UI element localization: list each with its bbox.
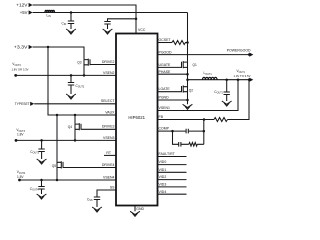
- svg-text:DRIVE3: DRIVE3: [102, 125, 115, 129]
- junction COMP node: [171, 130, 174, 133]
- svg-text:DRIVE2: DRIVE2: [102, 60, 115, 64]
- wire COUT2 branch: [70, 75, 72, 82]
- svg-text:DRIVE4: DRIVE4: [102, 163, 115, 167]
- wire PHASE: [158, 73, 188, 75]
- transistor Q5: [57, 161, 116, 168]
- svg-text:VOUT2: VOUT2: [12, 62, 21, 67]
- wire PGND: [158, 99, 188, 101]
- wire LGATE: [158, 91, 183, 93]
- junction PHASE: [186, 73, 189, 76]
- junction VCC bypass tap: [135, 18, 138, 21]
- svg-text:VID0: VID0: [159, 160, 167, 164]
- svg-text:VSEN4: VSEN4: [103, 175, 115, 179]
- output VOUT2: [12, 62, 29, 77]
- wire +5V rail: [33, 12, 188, 14]
- ground COUT2: [66, 94, 76, 99]
- wire COUT3 branch: [41, 140, 43, 148]
- wire POWERGOOD: [158, 54, 250, 56]
- ground CSS: [92, 207, 102, 212]
- junction Q3 source on VSEN2: [83, 74, 86, 77]
- svg-text:VSEN3: VSEN3: [103, 136, 115, 140]
- svg-text:TYPESET: TYPESET: [15, 102, 31, 106]
- svg-text:VID1: VID1: [159, 168, 167, 172]
- svg-text:CSS: CSS: [87, 197, 93, 202]
- svg-text:VID3: VID3: [159, 183, 167, 187]
- svg-text:1.8V: 1.8V: [17, 132, 24, 136]
- junction inductor tap: [186, 78, 189, 81]
- svg-text:LOUT1: LOUT1: [204, 71, 213, 76]
- resistor RFB: [214, 118, 227, 122]
- junction Q5 source on VSEN4: [56, 179, 59, 182]
- svg-text:VAUX: VAUX: [105, 110, 115, 114]
- wire COUT4 branch: [41, 180, 43, 186]
- wire VOUT2 / VSEN2: [16, 74, 116, 76]
- svg-text:COUT3: COUT3: [30, 150, 39, 155]
- svg-text:Q1: Q1: [193, 63, 197, 67]
- transistor Q3: [84, 59, 116, 66]
- ground PGND: [183, 100, 193, 109]
- wire upper drain column: [187, 13, 189, 62]
- junction Q5 supply tap: [56, 114, 59, 117]
- pin VID2 stub: [158, 179, 187, 181]
- svg-text:VID2: VID2: [159, 175, 167, 179]
- wire Q3 source: [83, 65, 85, 76]
- wire Q4 drain: [74, 115, 76, 124]
- wire CIN branch: [70, 13, 72, 21]
- wire SS: [97, 190, 116, 197]
- wire VOUT1 rail: [188, 79, 250, 81]
- wire SELECT: [34, 103, 116, 105]
- wire OCSET: [158, 42, 173, 44]
- svg-text:VID4: VID4: [159, 190, 167, 194]
- input +12V: [16, 3, 32, 8]
- output VOUT4: [17, 170, 26, 181]
- junction VSEN1 output tap: [237, 78, 240, 81]
- ground CIN: [66, 29, 76, 34]
- wire FB: [158, 119, 215, 121]
- ground COUT3: [37, 159, 47, 164]
- inductor LIN: [45, 10, 55, 12]
- svg-text:VSEN1: VSEN1: [159, 106, 171, 110]
- capacitor COUT3: [38, 149, 44, 159]
- wire COMP: [158, 130, 173, 132]
- svg-text:SELECT: SELECT: [101, 99, 115, 103]
- svg-text:COUT4: COUT4: [30, 187, 39, 192]
- svg-text:POWERGOOD: POWERGOOD: [227, 48, 251, 53]
- wire Q5 drain: [56, 115, 58, 162]
- pin VID1 stub: [158, 171, 187, 173]
- junction comp mid node: [203, 130, 206, 133]
- svg-text:1.5V: 1.5V: [17, 175, 24, 179]
- svg-text:OCSET: OCSET: [159, 38, 172, 42]
- junction Q4 supply tap: [74, 114, 77, 117]
- capacitor COUT2: [68, 83, 74, 95]
- svg-text:COUT2: COUT2: [76, 84, 85, 89]
- pin RT stub: [104, 154, 116, 156]
- junction COUT1 tap: [225, 78, 228, 81]
- capacitor C1: [186, 129, 188, 134]
- svg-text:HIP6021: HIP6021: [128, 115, 145, 120]
- pin FAULT/RT stub: [158, 156, 187, 158]
- wire UGATE: [158, 66, 183, 68]
- wire FB to output: [228, 80, 250, 120]
- ground COUT4: [37, 194, 47, 199]
- wire Q5 source: [56, 168, 58, 181]
- junction FB comp tap: [203, 118, 206, 121]
- wire comp right vertical: [203, 120, 205, 145]
- transistor Q4: [75, 123, 116, 130]
- svg-text:+3.3V: +3.3V: [14, 45, 28, 50]
- output VOUT3: [15, 128, 26, 142]
- wire VSEN1: [158, 80, 239, 111]
- svg-text:VSEN2: VSEN2: [103, 71, 115, 75]
- wire GND pin: [134, 206, 136, 212]
- svg-text:+12V: +12V: [16, 3, 27, 8]
- capacitor C2: [179, 142, 181, 147]
- svg-text:VCC: VCC: [138, 28, 146, 32]
- input +5V: [20, 10, 33, 15]
- wire +3.3V rail to Q3 drain: [33, 47, 84, 59]
- capacitor COUT4: [38, 187, 44, 195]
- wire Q2 source: [187, 92, 189, 100]
- junction +3.3V branch: [47, 46, 50, 49]
- junction Q4 source on VSEN3: [74, 139, 77, 142]
- svg-text:FAULT/RT: FAULT/RT: [159, 152, 176, 156]
- junction COUT4 tap: [40, 179, 43, 182]
- capacitor CSS: [94, 197, 100, 207]
- output POWERGOOD: [227, 48, 254, 57]
- transistor Q1: [182, 61, 188, 68]
- output VOUT1: [234, 69, 254, 82]
- svg-text:GND: GND: [136, 207, 144, 211]
- svg-text:Q4: Q4: [68, 125, 72, 129]
- input TYPESET: [15, 102, 35, 107]
- wire VOUT4 / VSEN4: [20, 179, 117, 181]
- resistor R2: [189, 143, 197, 147]
- svg-text:PGND: PGND: [159, 96, 170, 100]
- svg-text:VOUT4: VOUT4: [17, 170, 26, 175]
- svg-text:FB: FB: [159, 115, 164, 119]
- pin VID0 stub: [158, 164, 187, 166]
- junction COUT3 tap: [40, 139, 43, 142]
- svg-text:Q5: Q5: [52, 164, 56, 168]
- wire comp bottom branch: [173, 131, 204, 144]
- pin VID4 stub: [158, 193, 187, 195]
- capacitor VCC bypass: [104, 22, 110, 30]
- inductor LOUT1: [203, 77, 218, 79]
- ground VCC bypass: [103, 29, 113, 34]
- svg-text:+5V: +5V: [20, 10, 28, 15]
- resistor ROCSET: [172, 41, 187, 45]
- capacitor COUT1: [224, 92, 230, 101]
- svg-text:Q3: Q3: [77, 60, 81, 64]
- svg-text:CIN: CIN: [62, 22, 67, 27]
- svg-text:COMP: COMP: [159, 127, 170, 131]
- junction CIN tap: [70, 11, 73, 14]
- junction PGND: [186, 99, 189, 102]
- IC U1 HIP6021: [116, 34, 158, 206]
- svg-text:UGATE: UGATE: [159, 63, 171, 67]
- input +3.3V: [14, 45, 33, 50]
- svg-text:COUT1: COUT1: [214, 90, 223, 95]
- capacitor CIN: [68, 21, 74, 29]
- svg-text:LIN: LIN: [47, 14, 51, 19]
- wire +12V rail to VCC: [33, 5, 136, 34]
- svg-text:Q2: Q2: [189, 88, 193, 92]
- wire Q4 source: [74, 129, 76, 140]
- svg-text:LGATE: LGATE: [159, 87, 171, 91]
- wire VCC bypass branch: [108, 19, 137, 22]
- junction OCSET drain node: [186, 41, 189, 44]
- pin VID3 stub: [158, 186, 187, 188]
- svg-text:PGOOD: PGOOD: [159, 50, 173, 54]
- svg-text:1.8V OR 3.3V: 1.8V OR 3.3V: [12, 67, 29, 71]
- wire COUT1 branch: [226, 80, 228, 92]
- ground COUT1: [222, 101, 232, 106]
- ground GND: [130, 211, 140, 216]
- svg-text:1.3V TO 3.5V: 1.3V TO 3.5V: [234, 74, 251, 78]
- wire phase column: [187, 67, 189, 86]
- transistor Q2: [182, 85, 188, 92]
- wire comp top branch: [173, 130, 204, 132]
- svg-text:SS: SS: [110, 185, 115, 189]
- wire VOUT3 / VSEN3: [16, 139, 116, 141]
- wire +3.3V down to VAUX: [48, 47, 116, 115]
- junction COUT2 tap: [70, 74, 73, 77]
- svg-text:PHASE: PHASE: [159, 70, 172, 74]
